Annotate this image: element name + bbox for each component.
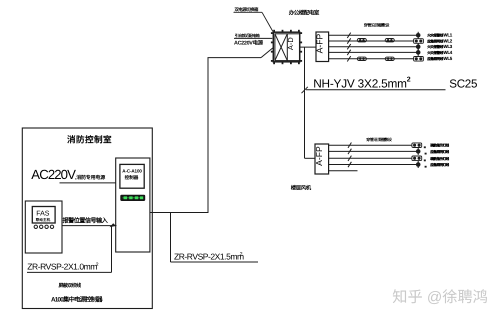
svg-text:报警位置信号输入: 报警位置信号输入 bbox=[63, 217, 109, 225]
luminaire L4 on wire WL5 bbox=[385, 57, 394, 60]
wire: diagonal into A-D bbox=[261, 48, 273, 58]
svg-text:知乎 @徐聘鸿: 知乎 @徐聘鸿 bbox=[392, 289, 488, 306]
svg-text:AC220V: AC220V bbox=[31, 167, 76, 182]
twin lamp symbol end of WL5 bbox=[414, 57, 424, 62]
ATS box A-D (dual power switch) bbox=[271, 30, 302, 64]
twin lamp symbol end of N3 bbox=[412, 156, 426, 161]
svg-text:应急照明线 WL2: 应急照明线 WL2 bbox=[427, 38, 453, 43]
distribution box A-FP #2 bbox=[315, 144, 329, 174]
svg-text:疏散指示灯线: 疏散指示灯线 bbox=[430, 156, 449, 161]
crossed rectangle (incoming section) bbox=[275, 34, 287, 61]
controller cabinet A-C-A100 bbox=[116, 158, 150, 252]
svg-text:,消防专用电源: ,消防专用电源 bbox=[75, 174, 105, 181]
branch labels group 1 bbox=[427, 33, 453, 62]
label leader: ZR-RVSP-2X1.5 bbox=[170, 213, 172, 263]
svg-text:2: 2 bbox=[240, 252, 243, 258]
twin lamp symbol end of WL2 bbox=[414, 39, 424, 44]
svg-text:A-C-A100: A-C-A100 bbox=[122, 168, 142, 173]
branch wires group 2 (from A-FP #2) bbox=[328, 143, 416, 171]
svg-text:屏蔽双绞线: 屏蔽双绞线 bbox=[59, 282, 82, 289]
label leader: ZR-RVSP-2X1.0 bbox=[111, 226, 113, 273]
indicator bar with green lamps bbox=[120, 195, 145, 201]
svg-text:A-FP: A-FP bbox=[314, 146, 324, 166]
wire N4 bbox=[328, 164, 416, 166]
wire: alarm position signal line bbox=[62, 225, 117, 227]
svg-text:FAS: FAS bbox=[36, 210, 50, 217]
svg-text:应急照明灯线: 应急照明灯线 bbox=[430, 162, 449, 167]
wire count slashes bbox=[348, 143, 351, 148]
svg-text:消防控制室: 消防控制室 bbox=[67, 134, 112, 144]
svg-text:ZR-RVSP-2X1.0mm: ZR-RVSP-2X1.0mm bbox=[27, 262, 97, 272]
wire count slashes bbox=[347, 33, 350, 38]
wire WL5 bbox=[329, 58, 414, 60]
svg-text:AC220V电源: AC220V电源 bbox=[234, 40, 264, 47]
wire: cabinet to A-D horizontal run bbox=[150, 212, 208, 214]
svg-text:2: 2 bbox=[96, 262, 99, 268]
FAS panel bbox=[32, 207, 55, 224]
svg-text:穿管沿顶棚敷设: 穿管沿顶棚敷设 bbox=[366, 137, 393, 142]
lamp symbol end of WL1 bbox=[416, 32, 421, 39]
wire N1 bbox=[328, 144, 412, 146]
luminaire L1 on wire WL2 bbox=[357, 39, 366, 42]
svg-text:2: 2 bbox=[407, 77, 411, 84]
twin lamp symbol end of N1 bbox=[412, 143, 426, 148]
wire WL4 bbox=[329, 51, 417, 53]
branch labels group 2 bbox=[430, 143, 449, 167]
wire WL1 bbox=[329, 34, 417, 36]
svg-text:SC25: SC25 bbox=[449, 77, 477, 90]
enclosure: fire control room box 消防控制室 bbox=[22, 128, 152, 309]
arrowhead at signal line end bbox=[110, 223, 117, 227]
svg-text:A100集中电源控制器: A100集中电源控制器 bbox=[51, 296, 103, 304]
wire N3 bbox=[328, 157, 412, 159]
FAS indicator lamps bbox=[34, 225, 37, 228]
wire: AC220V feed into A-D bbox=[234, 37, 272, 39]
lamp symbol end of WL3 bbox=[416, 43, 421, 50]
wire N2 bbox=[328, 150, 416, 152]
wire N5 spare bbox=[328, 170, 358, 172]
luminaire L2 on wire WL2 bbox=[385, 39, 394, 42]
svg-text:应急照明线 WL5: 应急照明线 WL5 bbox=[427, 56, 453, 61]
lamp symbol end of N4 bbox=[416, 161, 427, 168]
svg-text:NH-YJV 3X2.5mm: NH-YJV 3X2.5mm bbox=[313, 76, 407, 90]
svg-text:A-FP: A-FP bbox=[314, 34, 324, 54]
svg-text:ZR-RVSP-2X1.5mm: ZR-RVSP-2X1.5mm bbox=[174, 251, 244, 261]
lamp symbol end of N2 bbox=[416, 148, 427, 155]
svg-text:引自就近配电箱: 引自就近配电箱 bbox=[235, 33, 260, 38]
wire: horizontal at top bbox=[208, 57, 262, 59]
wire WL3 bbox=[329, 46, 417, 48]
svg-text:火灾报警线 WL1: 火灾报警线 WL1 bbox=[427, 33, 453, 38]
svg-text:楼层风机: 楼层风机 bbox=[291, 184, 312, 191]
svg-text:控制器: 控制器 bbox=[125, 175, 139, 180]
svg-text:火灾报警线 WL4: 火灾报警线 WL4 bbox=[427, 50, 453, 55]
FAS cabinet bbox=[25, 201, 62, 253]
riser: vertical down to A-FP2 bbox=[304, 47, 306, 158]
distribution box A-FP #1 bbox=[316, 32, 329, 62]
wire: AC220V feed line to controller cabinet bbox=[60, 182, 117, 184]
svg-text:应急照明灯线: 应急照明灯线 bbox=[430, 149, 449, 154]
svg-text:穿管沿顶棚敷设: 穿管沿顶棚敷设 bbox=[364, 22, 391, 27]
svg-text:双电源切换箱: 双电源切换箱 bbox=[234, 7, 259, 12]
lamp symbol end of WL4 bbox=[416, 49, 421, 56]
luminaire L3 on wire WL5 bbox=[357, 57, 366, 60]
wire WL2 bbox=[329, 40, 414, 42]
svg-text:办公楼配电室: 办公楼配电室 bbox=[289, 9, 320, 16]
svg-text:联动主机: 联动主机 bbox=[36, 217, 51, 222]
svg-text:疏散指示灯线: 疏散指示灯线 bbox=[430, 143, 449, 148]
branch wires group 1 (from A-FP #1) bbox=[329, 33, 417, 62]
controller panel bbox=[120, 164, 144, 188]
svg-text:火灾报警线 WL3: 火灾报警线 WL3 bbox=[427, 44, 453, 49]
wire: vertical riser to A-D bbox=[207, 58, 209, 213]
wire: A-D to A-FP1 bbox=[300, 46, 317, 48]
cable label: NH-YJV 3X2.5mm2 SC25 bbox=[302, 87, 308, 93]
svg-text:A-D: A-D bbox=[286, 37, 295, 50]
